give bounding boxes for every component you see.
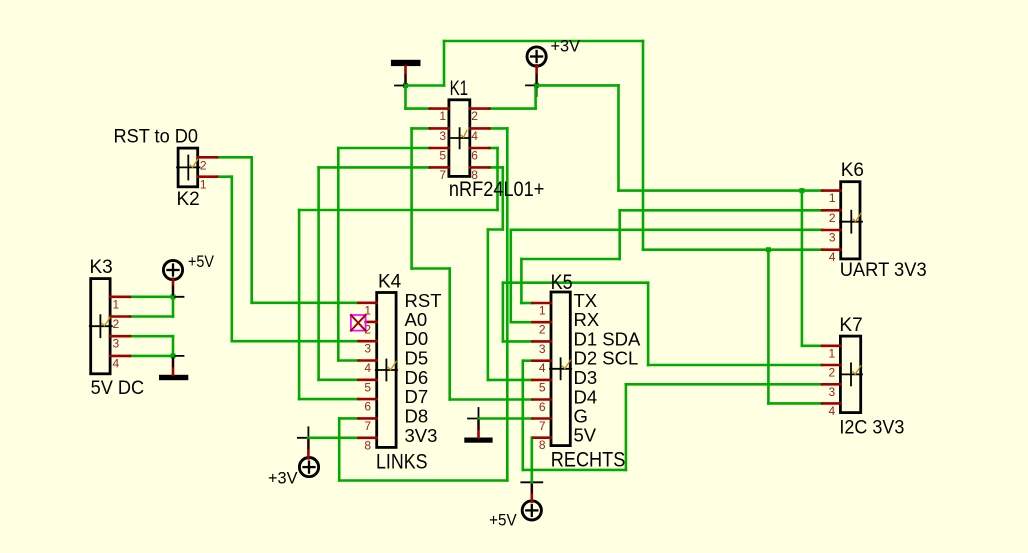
svg-text:2: 2 [829,211,836,225]
connector K3 "5V DC" [90,257,145,399]
svg-text:TX: TX [574,290,598,311]
svg-text:RX: RX [574,309,600,330]
svg-text:A0: A0 [405,309,428,330]
svg-text:K4: K4 [378,271,402,292]
wire GND drop to K7 [767,250,770,404]
svg-text:4: 4 [829,250,836,264]
wire 3V3: to K4 pin8 [308,436,358,439]
wire 5V: K5 pin8 drop [530,438,533,483]
wire +3V to K6 pin1 [619,189,823,192]
connector K4 LINKS [358,271,441,473]
wire D0: K2 pin1 right [217,175,232,178]
no-connect marker on K4 pin2 (magenta X box) [351,315,366,331]
wire SCL drop [521,361,524,470]
svg-text:5: 5 [364,380,371,394]
node GND dot at K6 branch [766,247,771,252]
svg-text:K5: K5 [551,271,573,294]
wire MOSI: K1 pin6 right [489,147,497,150]
wire MISO: K1 pin7 stub-left [319,166,430,169]
svg-text:RST to D0: RST to D0 [114,127,199,148]
svg-text:1: 1 [829,346,836,360]
svg-text:K7: K7 [839,315,862,336]
wire G: to K5 pin7 [479,417,533,420]
ground GND1 (top, near K1) [391,60,421,86]
wire GND top run [444,40,643,43]
wire +5V: K3 pin2 [130,315,173,318]
wire RX riser [509,230,512,322]
svg-text:5: 5 [439,148,446,162]
svg-text:D6: D6 [405,367,429,388]
svg-text:3: 3 [829,385,836,399]
svg-text:D7: D7 [405,386,429,407]
svg-text:2: 2 [829,366,836,380]
connector K2 "RST to D0" [114,127,218,210]
wire SCK: K1 pin5 stub-left [338,147,430,150]
wire IRQ jog left [488,228,503,231]
wire CE drop [410,128,413,268]
wire TX riser 2 [618,210,621,259]
wire RST: K2 pin2 right [217,156,252,159]
svg-text:4: 4 [113,356,120,370]
svg-text:5V DC: 5V DC [91,378,145,399]
wire SCL run right [523,469,626,472]
wire GND: junction up-right [406,84,445,87]
wire GND riser [443,41,446,86]
wire CE to K5 pin6 D4 [450,398,533,401]
svg-text:RECHTS: RECHTS [551,449,626,472]
wire SCK to K4 pin4 D5 [338,359,358,362]
svg-text:4: 4 [539,361,546,375]
svg-text:6: 6 [471,148,478,162]
svg-text:2: 2 [113,317,120,331]
wire SDA to K7 pin2 [648,364,822,367]
wire TX riser [520,259,523,303]
svg-text:2: 2 [200,159,207,173]
svg-text:8: 8 [364,438,371,452]
svg-text:+5V: +5V [188,253,214,271]
svg-text:+3V: +3V [551,37,581,55]
svg-text:2: 2 [539,323,546,337]
wire CE: K1 pin3 stub-left [412,127,430,130]
svg-text:+5V: +5V [489,512,516,530]
svg-text:3V3: 3V3 [405,425,438,446]
svg-text:4: 4 [471,129,478,143]
supply +3V2 (K4 pin8) [268,427,319,487]
wire +3V riser [534,85,537,108]
svg-text:K1: K1 [450,77,469,100]
wire GND right drop [642,41,645,250]
svg-text:G: G [574,406,588,427]
ground GND3 (K5 pin7 G) [464,408,492,443]
connector K6 UART 3V3 [822,160,927,281]
svg-text:D0: D0 [405,328,429,349]
wire +5V riser to pin2 [172,297,175,317]
wire +3V run right [537,84,619,87]
node +3V junction dot [534,83,539,88]
node GND junction dot [403,83,408,88]
svg-text:K3: K3 [90,257,113,278]
svg-text:6: 6 [364,400,371,414]
wire TX: K5 pin1 left [521,302,532,305]
wire 5V: corner to stub [532,436,534,439]
wire GND: K3 pin4 [130,355,173,358]
wire IRQ to K5 pin5 D3 [488,379,533,382]
connector K7 I2C 3V3 [822,315,904,438]
svg-text:7: 7 [439,168,446,182]
wire SCL to K7 pin3 [626,383,822,386]
wire +3V drop to K7 [801,191,804,346]
wire TX run right [521,258,619,261]
connector K1 nRF24L01+ [430,77,545,201]
wire SCL riser [625,384,628,470]
svg-text:K6: K6 [841,160,864,181]
svg-text:7: 7 [539,419,546,433]
svg-text:D2 SCL: D2 SCL [574,348,639,369]
wire CSN riser [338,418,341,480]
svg-text:nRF24L01+: nRF24L01+ [449,178,545,201]
svg-text:8: 8 [539,438,546,452]
wire TX to K6 pin2 [620,209,823,212]
wire RX to K6 pin3 [511,229,822,232]
svg-text:K2: K2 [177,189,200,210]
svg-text:5V: 5V [574,425,597,446]
wire D0 drop [231,177,234,342]
wire GND: junction to K1 pin1 corner [404,86,407,109]
svg-text:7: 7 [364,419,371,433]
node +3V junction cross [526,84,547,86]
node +5V junction dot [171,294,176,299]
svg-text:1: 1 [539,304,546,318]
wire GND: to K1 pin1 [406,107,430,110]
node GND K3 junction cross [163,355,184,357]
wire +3V to K7 pin1 [802,344,822,347]
svg-text:4: 4 [829,404,836,418]
wire IRQ: K1 pin8 right [489,166,502,169]
wire MISO drop [317,167,320,379]
wire MOSI run left [299,209,497,212]
svg-text:3: 3 [829,231,836,245]
node +5V junction cross [163,296,184,298]
wire CE drop 2 [448,269,451,400]
wire +5V: K3 pin1 [130,295,173,298]
ground GND2 (K3) [159,356,188,380]
svg-text:D5: D5 [405,348,429,369]
wire CSN bottom run left [339,479,507,482]
wire SDA drop [647,283,650,365]
wire MOSI drop [496,148,499,210]
svg-text:1: 1 [829,191,836,205]
svg-text:D8: D8 [405,405,429,426]
node GND junction cross [395,85,416,87]
svg-text:I2C 3V3: I2C 3V3 [839,417,904,438]
wire +3V drop [617,85,620,190]
supply +5V2 (K5 pin8) [489,472,542,530]
wire MOSI to K4 pin6 D7 [299,398,358,401]
wire SCK drop [337,148,340,361]
wire CSN: K1 pin4 right [489,127,507,130]
wire IRQ drop 2 [487,230,490,380]
svg-text:D1 SDA: D1 SDA [574,328,641,349]
svg-text:3: 3 [113,337,120,351]
wire CSN to K4 pin7 D8 [339,417,358,420]
connector K5 RECHTS [532,271,641,472]
wire RST drop [250,157,253,302]
wire SDA: K5 pin3 left [503,340,533,343]
wire RST to K4 pin1 [252,301,359,304]
wire GND to K7 pin4 [768,402,822,405]
wire CSN long drop [506,128,509,480]
wire SCL: K5 pin4 left [523,359,533,362]
svg-text:6: 6 [539,400,546,414]
wire GND: K3 pin3 [130,335,173,338]
wire RX: K5 pin2 left [511,321,533,324]
supply +5V1 (K3) [163,253,214,297]
wire +3V: K1 pin2 to riser [489,107,535,110]
svg-text:+3V: +3V [268,470,298,488]
node +3V dot at K6 branch [799,188,804,193]
svg-text:2: 2 [471,109,478,123]
wire SDA run right [503,281,648,284]
supply +3V1 (top) [527,37,580,85]
svg-text:1: 1 [113,297,120,311]
svg-text:3: 3 [439,129,446,143]
svg-text:LINKS: LINKS [376,450,428,473]
svg-text:UART 3V3: UART 3V3 [840,260,927,281]
wire GND drop pin3 to pin4 [172,336,175,356]
svg-text:RST: RST [405,290,442,311]
wire MOSI drop 2 [298,210,301,399]
wire SDA riser [502,283,505,342]
wire IRQ drop [501,167,504,229]
svg-text:D4: D4 [574,387,598,408]
svg-text:1: 1 [200,178,207,192]
svg-text:3: 3 [539,342,546,356]
svg-text:5: 5 [539,380,546,394]
wire D0 to K4 pin3 [232,340,359,343]
svg-text:3: 3 [364,342,371,356]
svg-text:D3: D3 [574,367,598,388]
wire CE jog right [412,267,450,270]
node GND K3 junction dot [171,353,176,358]
wire MISO to K4 pin5 D6 [319,378,359,381]
svg-text:1: 1 [439,109,446,123]
wire GND to K6 pin4 [643,248,822,251]
svg-text:4: 4 [364,361,371,375]
